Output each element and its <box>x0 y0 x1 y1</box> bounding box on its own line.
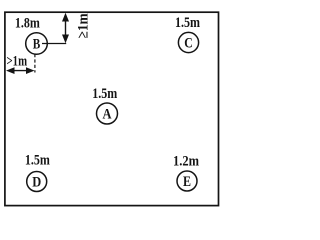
svg-text:1.5m: 1.5m <box>25 152 50 168</box>
wire from B to vertical arrow <box>42 43 66 45</box>
svg-text:C: C <box>184 35 193 51</box>
svg-text:1.2m: 1.2m <box>173 153 199 169</box>
svg-text:>1m: >1m <box>7 53 28 69</box>
svg-text:A: A <box>103 106 112 122</box>
svg-text:≥1m: ≥1m <box>75 13 91 38</box>
circle D <box>27 172 47 192</box>
dashed drop line from B <box>34 54 36 73</box>
circle C <box>178 32 198 52</box>
svg-text:D: D <box>32 174 41 190</box>
svg-text:B: B <box>33 36 41 52</box>
horizontal dimension arrow <box>6 67 35 74</box>
svg-text:E: E <box>183 174 191 190</box>
vertical dimension arrow <box>62 13 69 43</box>
circle E <box>177 171 197 191</box>
svg-text:1.5m: 1.5m <box>175 15 200 31</box>
circle A <box>97 103 118 124</box>
room border <box>5 12 219 205</box>
svg-text:1.5m: 1.5m <box>92 86 117 102</box>
svg-text:1.8m: 1.8m <box>15 15 40 31</box>
circle B <box>26 33 48 55</box>
